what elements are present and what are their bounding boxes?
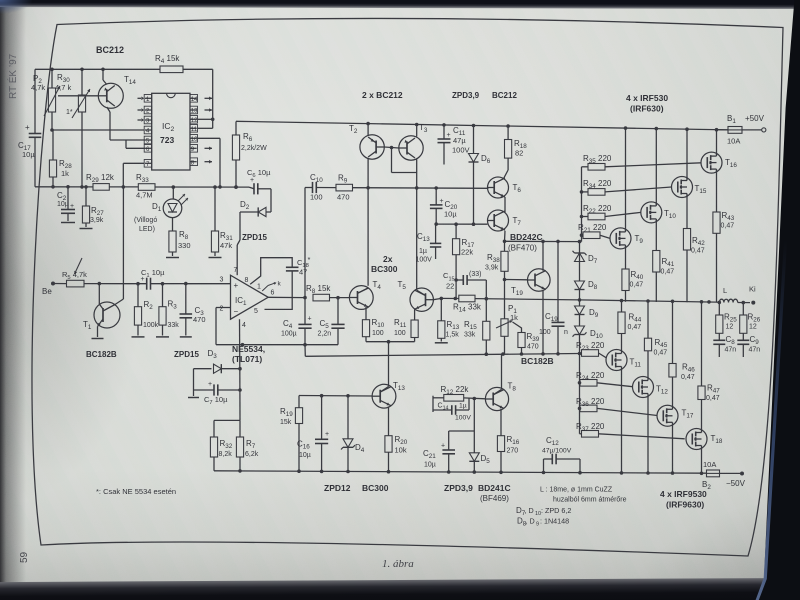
resistor R26 bbox=[740, 303, 761, 341]
mosfet T9 bbox=[610, 228, 643, 249]
capacitor C11 bbox=[438, 125, 470, 165]
resistor R25 bbox=[716, 302, 738, 340]
mosfet T17 bbox=[657, 405, 694, 426]
resistor R46 bbox=[669, 302, 695, 407]
label 2x BC300 bbox=[371, 254, 398, 274]
resistor R13 bbox=[435, 298, 460, 342]
wire: T1 collector up to bus bbox=[115, 187, 123, 305]
resistor R18 bbox=[504, 126, 528, 179]
wire: T16 drain bbox=[716, 130, 718, 155]
wire: out rail segment 2 bbox=[475, 297, 580, 301]
wire: T11 drain bbox=[621, 369, 623, 473]
resistor R20 bbox=[385, 435, 408, 472]
label BC182B (T1) bbox=[86, 350, 117, 359]
op-amp IC1 bbox=[220, 267, 275, 329]
capacitor C15 22 bbox=[443, 271, 486, 299]
transistor T19 bbox=[511, 269, 550, 297]
resistor R45 bbox=[644, 301, 667, 378]
wire: T14 emitter to IC2 pin5/6 bbox=[107, 107, 145, 148]
wire: feedback line A bbox=[216, 343, 338, 347]
input arrow bbox=[74, 258, 82, 274]
wire: IC1 pin4 column bbox=[239, 319, 242, 420]
capacitor C14 bbox=[433, 398, 471, 421]
resistor R35 bbox=[582, 154, 702, 170]
transistor T5 bbox=[398, 280, 434, 311]
mosfet T11 bbox=[606, 350, 641, 371]
transistor T6 bbox=[488, 177, 522, 198]
wire: regulated bus bbox=[35, 186, 249, 188]
transistor T4 bbox=[349, 280, 381, 309]
resistor R9 bbox=[336, 174, 353, 202]
node dots after C1 bbox=[161, 282, 188, 286]
wire: feedback jog bbox=[304, 345, 306, 357]
wire: negative rail bbox=[214, 469, 707, 475]
pin1 k arrow bbox=[262, 281, 281, 292]
potentiometer P1 bbox=[496, 280, 518, 355]
label 4x IRF9530 bbox=[660, 489, 707, 510]
wire: top-left supply rail bbox=[35, 69, 213, 128]
capacitor C8s bbox=[713, 335, 736, 357]
label NE5534 TL071 bbox=[232, 344, 265, 364]
resistor R11 bbox=[394, 318, 418, 338]
capacitor C4 bbox=[281, 298, 312, 345]
resistor R8 (330) bbox=[166, 218, 191, 258]
label 2x BC212 bbox=[362, 90, 403, 100]
wire: T3 emitter to rail bbox=[416, 125, 418, 137]
wire: T2/T3 bases bbox=[384, 146, 416, 173]
transistor T8 bbox=[485, 382, 516, 411]
side text RT EK 97 bbox=[6, 53, 19, 99]
resistor R36 bbox=[576, 397, 657, 416]
capacitor C17 bbox=[18, 123, 41, 187]
label ZPD3,9 bottom bbox=[444, 483, 473, 493]
wire: R32/R7 top bus bbox=[214, 419, 240, 421]
caption 1. abra bbox=[382, 558, 414, 570]
resistor R5 input bbox=[62, 270, 87, 287]
wire: T8 collector bbox=[493, 354, 501, 395]
resistor R34 bbox=[582, 179, 672, 195]
resistor R14 bbox=[453, 295, 482, 313]
capacitor C3 bbox=[180, 284, 206, 337]
resistor R16 bbox=[497, 435, 519, 473]
wire: T5 base link bbox=[433, 297, 443, 301]
label ZPD3,9 bbox=[452, 91, 480, 100]
label BC212 right bbox=[492, 91, 517, 100]
diode D10 ZPD bbox=[573, 315, 604, 341]
capacitor C16 bbox=[297, 396, 329, 472]
node dot P2 top bbox=[50, 68, 54, 72]
wire: T7 base rail bbox=[434, 222, 487, 226]
wire: rail to C17 bbox=[34, 69, 36, 133]
resistor R29 bbox=[86, 173, 115, 190]
wire: IC1 output bbox=[268, 296, 307, 300]
wire: chain bottom bbox=[578, 335, 582, 356]
label BD242C bbox=[508, 232, 543, 253]
capacitor C19 bbox=[539, 241, 568, 353]
mosfet T18 bbox=[686, 429, 723, 450]
resistor R39 bbox=[513, 322, 540, 354]
wire: driver rail 241 bbox=[503, 240, 582, 244]
diode D2 ZPD15 bbox=[240, 200, 271, 242]
transistor T1 bbox=[83, 284, 120, 339]
resistor R31 bbox=[209, 187, 234, 257]
transistor T2 bbox=[349, 124, 384, 159]
wire: T19 collector bbox=[542, 241, 544, 270]
capacitor C20 bbox=[430, 188, 458, 224]
diode D8 bbox=[575, 262, 598, 292]
pin arrows IC2 right 14,13,8 bbox=[205, 97, 213, 164]
LED D1 bbox=[134, 187, 188, 233]
resistor R38 bbox=[485, 241, 508, 281]
wire: T17 drain bbox=[672, 425, 674, 473]
wire: IC1 pin2 feedback bbox=[216, 308, 231, 345]
resistor R10 bbox=[362, 318, 384, 337]
resistor R12 bbox=[433, 385, 485, 412]
wire: T3 node to T5 bbox=[416, 188, 418, 290]
page number 59 bbox=[19, 551, 30, 563]
pin arrow IC2 pin 9 bbox=[205, 147, 213, 151]
wire: IC2 pin 11 bbox=[198, 127, 213, 129]
compensation loop C18 bbox=[250, 255, 310, 309]
pin arrows IC2 left 1-3 bbox=[138, 97, 145, 122]
wire: IC2 pin 4 to P2/R28 bbox=[50, 128, 144, 132]
transistor T7 bbox=[488, 210, 522, 231]
node dot D5 tap bbox=[473, 397, 477, 401]
capacitor C10 bbox=[310, 173, 336, 202]
mosfet T16 bbox=[701, 152, 737, 173]
capacitor C13 bbox=[416, 224, 442, 263]
wire: T9 drain bbox=[625, 128, 627, 231]
diode D5 ZPD3,9 bbox=[469, 399, 490, 473]
wire: T13 base rail bbox=[299, 394, 372, 398]
wire: mirror bias rail bbox=[353, 186, 489, 190]
wire: T4 emitter to R10 bbox=[365, 307, 367, 320]
potentiometer P2 bbox=[31, 69, 60, 130]
resistor R27 bbox=[80, 187, 105, 229]
label ZPD12 bbox=[324, 483, 351, 493]
input terminal Be bbox=[42, 282, 67, 297]
resistor R17 bbox=[453, 224, 475, 298]
wire: T13 collector bbox=[380, 342, 388, 392]
capacitor C9s bbox=[737, 335, 760, 357]
wire: T4 collector bbox=[358, 288, 369, 293]
wire: IC1 pin3 input bbox=[186, 283, 231, 285]
wire: T14 base bbox=[58, 95, 98, 97]
resistor R6 bbox=[232, 121, 267, 189]
wire: T8 emitter bbox=[500, 409, 502, 436]
capacitor C7 bbox=[194, 381, 242, 406]
wire: IC2 pin 7 down to bus bbox=[122, 163, 145, 188]
mosfet T10 bbox=[641, 202, 677, 223]
node dot T4 base bbox=[336, 296, 340, 300]
wire: output rail bbox=[580, 299, 717, 304]
wire: input node rail bbox=[84, 282, 147, 286]
capacitor C21 bbox=[423, 431, 474, 472]
wire: gate bus upper bbox=[580, 167, 584, 242]
transistor T13 bbox=[372, 381, 405, 408]
node dot T14 collector top bbox=[101, 68, 105, 72]
node dots on +rail bbox=[366, 122, 718, 132]
capacitor C5 bbox=[318, 298, 345, 345]
mosfet T12 bbox=[633, 377, 669, 398]
wire: T2 emitter to rail bbox=[367, 124, 369, 136]
resistor R7 bbox=[236, 420, 258, 471]
resistor R40 bbox=[622, 246, 644, 302]
capacitor C2 bbox=[57, 187, 75, 223]
capacitor C6 bbox=[247, 168, 271, 212]
mosfet T15 bbox=[672, 177, 707, 198]
resistor R47 bbox=[698, 302, 720, 430]
wire: T19 base bbox=[505, 279, 528, 281]
resistor R32 bbox=[210, 420, 232, 470]
wire: T6 emitter to T7 bbox=[504, 197, 506, 212]
op-amp regulator IC2 723 bbox=[144, 93, 198, 170]
wire: T12 drain bbox=[647, 396, 649, 473]
resistor R19 bbox=[280, 396, 303, 472]
node dot R30 top bbox=[80, 68, 84, 72]
wire: T19 emitter bbox=[542, 290, 544, 354]
wire: T14 collector up bbox=[103, 69, 107, 84]
label BC212 (T14) bbox=[96, 45, 124, 55]
transistor T14 bbox=[98, 75, 136, 108]
wire: T15 drain bbox=[686, 129, 688, 179]
diode D4 ZPD12 bbox=[341, 396, 365, 472]
wire: gate bus lower bbox=[578, 354, 582, 434]
wire: T2 collector to T4 bbox=[367, 159, 369, 286]
fuse B1 +50V bbox=[717, 114, 766, 146]
diode D9 bbox=[575, 300, 599, 319]
resistor R4 bbox=[155, 54, 183, 73]
note diodes bbox=[516, 506, 571, 528]
wire: T5 emitter to R11 bbox=[414, 309, 416, 320]
diode D3 bbox=[194, 349, 242, 373]
label ZPD15 (D3) bbox=[174, 350, 199, 359]
resistor R24 bbox=[576, 371, 633, 387]
wire: R10/R11 join bus bbox=[366, 337, 415, 344]
footnote csak NE5534 bbox=[96, 487, 176, 496]
resistor R23 bbox=[576, 341, 606, 358]
label BC182B (T19) bbox=[521, 356, 554, 366]
resistor R3 bbox=[156, 284, 179, 337]
wire: T7 emitter down bbox=[504, 231, 507, 242]
resistor R15 bbox=[464, 299, 490, 355]
resistor R44 bbox=[618, 301, 642, 351]
node dots on bus bbox=[51, 185, 238, 189]
trimmer R30 bbox=[55, 69, 90, 187]
resistor R21 bbox=[578, 223, 610, 239]
wire: +rail top bbox=[236, 121, 728, 130]
inductor L bbox=[716, 285, 756, 305]
label BC300 (T13) bbox=[362, 483, 389, 493]
diode D6 bbox=[469, 126, 491, 225]
wire: D3 left leg + ground bbox=[188, 369, 199, 398]
label 4x IRF530 bbox=[626, 93, 668, 114]
wire: output up to C10 bbox=[305, 188, 313, 298]
wire: IC2 pin 10 down to bus bbox=[198, 138, 222, 188]
wire: T13 emitter bbox=[388, 406, 390, 435]
resistor R2 bbox=[132, 284, 159, 337]
resistor R42 bbox=[683, 195, 705, 303]
fuse B2 -50V bbox=[702, 460, 746, 491]
capacitor C12 bbox=[542, 436, 580, 473]
wire: T10 drain bbox=[655, 129, 657, 205]
wire: out rail segment 1 bbox=[441, 297, 459, 301]
resistor R8b 15k bbox=[306, 284, 349, 301]
diode D7 ZPD bbox=[573, 242, 598, 265]
note L coil bbox=[540, 487, 627, 504]
resistor R28 bbox=[49, 130, 72, 187]
resistor R37 bbox=[576, 422, 685, 439]
resistor R33 bbox=[136, 173, 155, 200]
wire: T5 collector bbox=[417, 290, 426, 295]
resistor R22 bbox=[582, 204, 641, 220]
wire: D2 to IC1 pin7 bbox=[237, 212, 240, 275]
capacitor C1 bbox=[141, 268, 231, 290]
resistor R41 bbox=[653, 220, 675, 302]
wire: chain to out rail bbox=[578, 290, 582, 302]
resistor R43 bbox=[713, 170, 735, 302]
transistor T3 bbox=[399, 123, 428, 160]
wire: T3 collector tie bbox=[416, 160, 418, 188]
label BD241C bbox=[478, 483, 511, 503]
wire: T18 drain bbox=[701, 448, 703, 473]
wire: feedback line B bbox=[305, 352, 579, 356]
wire: IC2 pin 12 bbox=[198, 118, 215, 122]
